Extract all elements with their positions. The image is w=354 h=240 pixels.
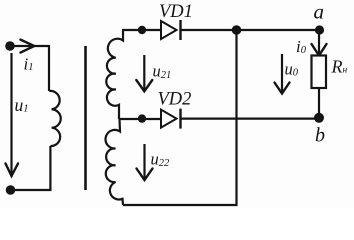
- diode VD2: [161, 110, 177, 128]
- svg-text:u21: u21: [153, 62, 172, 82]
- node dot winding start upper: [138, 26, 146, 34]
- wire right return vertical: [235, 30, 237, 205]
- svg-text:VD1: VD1: [159, 2, 193, 22]
- svg-text:u1: u1: [15, 95, 29, 115]
- arrow u1: [10, 53, 12, 175]
- svg-text:i1: i1: [24, 55, 34, 74]
- arrow u21: [143, 55, 145, 90]
- wire VD1 cathode to node a: [181, 29, 320, 31]
- svg-text:u22: u22: [151, 150, 171, 170]
- winding W22 secondary lower: [106, 119, 123, 205]
- wire input top: [10, 45, 49, 47]
- node dot winding start lower: [138, 114, 146, 122]
- terminal dot input bottom: [6, 185, 16, 195]
- node a dot: [315, 25, 324, 34]
- wire node a down: [318, 30, 320, 57]
- arrow u0: [281, 54, 283, 93]
- resistor Rn: [312, 56, 327, 89]
- arrow i1: [21, 40, 35, 53]
- svg-text:VD2: VD2: [158, 90, 192, 110]
- wire VD2 cathode to node b: [181, 117, 320, 119]
- svg-text:a: a: [314, 0, 325, 24]
- wire secondary bottom: [123, 204, 238, 206]
- wire resistor to node b: [318, 88, 320, 118]
- wire secondary top: [122, 29, 161, 31]
- diode VD1: [161, 21, 177, 39]
- wire primary lead down: [48, 45, 50, 91]
- svg-text:b: b: [315, 124, 325, 146]
- inductor L1 primary winding: [49, 91, 61, 146]
- svg-text:Rн: Rн: [331, 57, 348, 77]
- wire center tap: [119, 118, 161, 120]
- wire primary lead bottom: [11, 146, 51, 190]
- terminal dot input top: [5, 41, 15, 51]
- svg-text:i0: i0: [296, 37, 307, 56]
- transformer core: [84, 46, 87, 190]
- junction dot top: [232, 25, 242, 35]
- svg-text:u0: u0: [285, 60, 299, 79]
- node b dot: [314, 113, 324, 123]
- winding W21 secondary upper: [106, 31, 123, 120]
- arrow u22: [143, 144, 145, 179]
- arrow i0: [312, 44, 327, 56]
